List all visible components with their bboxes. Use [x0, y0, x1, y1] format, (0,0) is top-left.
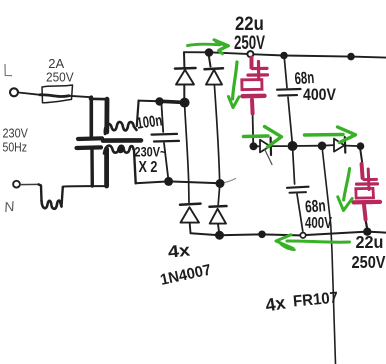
svg-text:22u: 22u [356, 232, 384, 252]
svg-text:22u: 22u [235, 13, 264, 34]
svg-text:4x: 4x [264, 293, 287, 316]
svg-text:50Hz: 50Hz [3, 142, 28, 155]
svg-text:2A: 2A [48, 56, 64, 71]
svg-text:100n: 100n [135, 110, 163, 132]
svg-text:250V: 250V [46, 70, 74, 85]
svg-text:250V: 250V [352, 252, 386, 272]
svg-text:4x: 4x [167, 240, 192, 262]
svg-text:250V: 250V [234, 33, 265, 54]
svg-text:400V: 400V [305, 213, 332, 231]
svg-text:230V~: 230V~ [135, 144, 167, 160]
svg-text:400V: 400V [303, 86, 336, 104]
svg-text:230V: 230V [3, 127, 29, 141]
svg-text:X 2: X 2 [139, 158, 158, 176]
